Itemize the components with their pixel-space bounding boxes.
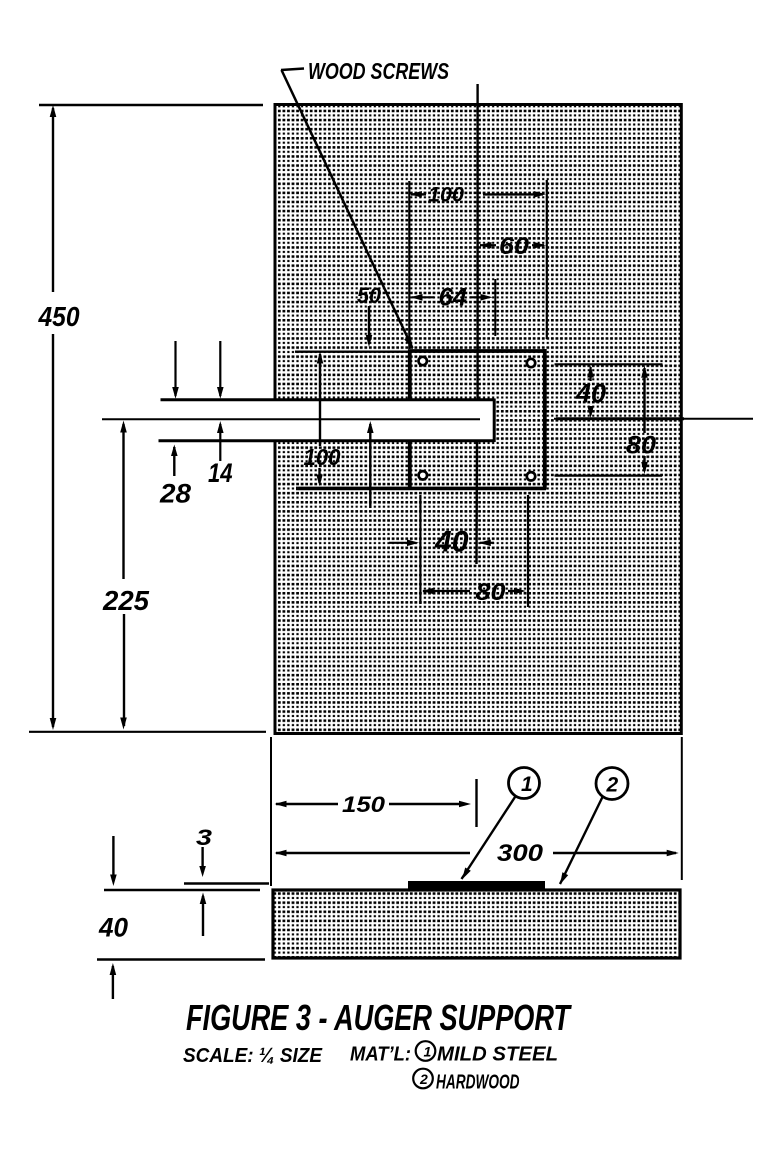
dimension 28 lower arrow xyxy=(173,447,175,476)
svg-text:1: 1 xyxy=(424,1044,432,1060)
svg-text:64: 64 xyxy=(439,284,468,312)
screw hole top-left xyxy=(419,357,427,365)
balloon 2 leader xyxy=(560,797,603,884)
dimension 450 extension bottom xyxy=(29,731,266,733)
slot white cutout xyxy=(273,401,495,441)
svg-text:2: 2 xyxy=(419,1071,428,1087)
dimension 100 top line xyxy=(411,193,426,195)
dimension 150 line xyxy=(275,801,287,808)
dimension 450 line lower xyxy=(52,334,54,727)
dimension 80 right extension xyxy=(555,475,663,477)
svg-text:100: 100 xyxy=(428,183,464,207)
screw hole bottom-right xyxy=(527,472,535,480)
dimension 64 extension right xyxy=(494,279,496,336)
dimension 14 lower arrow xyxy=(219,424,221,461)
steel plate left edge lower xyxy=(408,440,412,489)
svg-text:28: 28 xyxy=(159,479,191,509)
screw hole bottom-left xyxy=(419,471,427,479)
board bottom view (hardwood, stippled) xyxy=(273,890,680,958)
dimension 80 bottom extension xyxy=(527,495,529,607)
dimension 60 line xyxy=(480,242,492,249)
svg-text:40: 40 xyxy=(98,913,128,943)
dimension 40 right line xyxy=(589,367,591,381)
svg-text:MILD STEEL: MILD STEEL xyxy=(437,1044,558,1066)
vertical centerline upper segment xyxy=(476,84,478,400)
dimension 40 bottom line xyxy=(389,542,415,544)
dimension 40 lower arrow xyxy=(112,966,114,999)
dimension 28 upper arrow xyxy=(174,341,176,396)
svg-text:2: 2 xyxy=(606,774,619,797)
balloon 1 leader xyxy=(462,796,517,880)
dimension 80 right line xyxy=(643,368,645,433)
steel plate left edge upper xyxy=(408,350,412,402)
svg-text:150: 150 xyxy=(342,792,386,817)
svg-text:40: 40 xyxy=(575,379,606,409)
dimension 450 line upper xyxy=(52,108,54,292)
dimension 300 line xyxy=(275,850,287,857)
leader line xyxy=(282,70,413,348)
svg-text:SCALE: ¼ SIZE: SCALE: ¼ SIZE xyxy=(183,1044,323,1067)
svg-text:MAT’L:: MAT’L: xyxy=(350,1043,411,1066)
dimension 450 extension top xyxy=(39,104,263,106)
material 1 balloon xyxy=(416,1041,436,1061)
slot right end xyxy=(493,399,496,443)
svg-text:WOOD SCREWS: WOOD SCREWS xyxy=(308,58,450,84)
svg-text:80: 80 xyxy=(476,579,506,606)
svg-text:14: 14 xyxy=(208,458,233,488)
steel plate top edge xyxy=(408,349,546,353)
steel plate right edge xyxy=(543,349,547,490)
dimension 3 lower arrow xyxy=(202,896,204,936)
vertical centerline lower segment xyxy=(475,441,478,564)
bottom view right extension xyxy=(681,737,683,880)
board bottom extension xyxy=(97,958,265,960)
horizontal centerline right segment xyxy=(554,418,753,420)
dimension 50 counter arrow below centerline xyxy=(369,424,371,508)
steel plate bottom edge xyxy=(296,487,546,491)
horizontal centerline left segment xyxy=(102,418,480,420)
dimension 14 upper arrow xyxy=(219,341,221,396)
balloon 2 xyxy=(596,768,628,800)
leader tick xyxy=(281,69,304,71)
dimension 3 upper arrow xyxy=(201,847,203,869)
svg-text:100: 100 xyxy=(304,444,341,470)
leader arrowhead xyxy=(404,336,413,349)
svg-text:50: 50 xyxy=(357,283,381,308)
svg-text:HARDWOOD: HARDWOOD xyxy=(436,1072,520,1094)
steel plate bottom view xyxy=(408,881,545,889)
svg-text:300: 300 xyxy=(497,840,544,867)
svg-text:FIGURE 3 - AUGER SUPPORT: FIGURE 3 - AUGER SUPPORT xyxy=(186,997,572,1038)
balloon 1 xyxy=(509,768,540,799)
svg-text:1: 1 xyxy=(521,773,533,796)
dimension 100 vertical line lower xyxy=(318,468,320,483)
svg-text:225: 225 xyxy=(102,585,150,616)
screw hole top-right xyxy=(527,359,535,367)
dimension 50 arrow xyxy=(368,306,370,344)
svg-text:40: 40 xyxy=(434,526,469,559)
dimension 225 line lower xyxy=(123,614,125,726)
svg-text:80: 80 xyxy=(626,432,656,460)
dimension 3 extension stubs xyxy=(184,882,269,885)
dimension 100 vertical line upper xyxy=(319,354,321,446)
dimension 225 line upper xyxy=(122,424,124,579)
bottom view left extension xyxy=(270,737,272,886)
dimension 80 bottom line xyxy=(422,588,434,595)
dimension 100 top extension left xyxy=(408,181,410,349)
svg-text:3: 3 xyxy=(196,825,212,850)
extension line from plate top edge xyxy=(295,351,410,353)
slot top edge xyxy=(161,398,495,401)
dimension 150 end tick xyxy=(475,779,477,827)
dimension 40 right extension xyxy=(555,363,663,365)
dimension 100 top extension right xyxy=(546,180,548,339)
slot bottom edge xyxy=(159,439,495,442)
dimension 40 upper arrow xyxy=(112,836,114,875)
dimension 64 line xyxy=(411,294,423,301)
material 2 balloon xyxy=(413,1069,433,1089)
svg-text:450: 450 xyxy=(38,301,81,332)
svg-text:60: 60 xyxy=(499,233,529,260)
board front view (hardwood, stippled) xyxy=(275,105,681,734)
dimension 40 bottom extension xyxy=(419,495,421,604)
